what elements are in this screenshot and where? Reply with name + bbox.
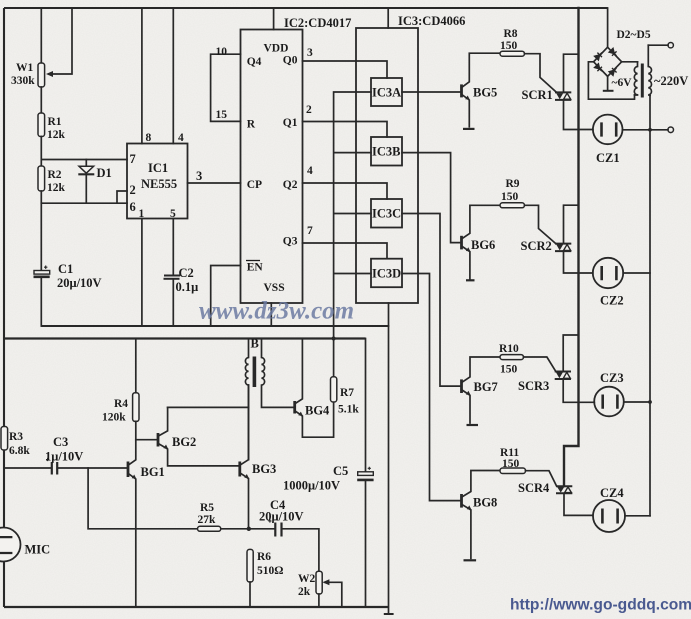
svg-text:W1: W1 xyxy=(16,62,34,74)
wire R2 bottom to IC1 pins 2,6 xyxy=(41,191,127,203)
wire CZ1 to mains xyxy=(623,129,669,131)
svg-text:C1: C1 xyxy=(58,262,73,276)
svg-text:BG1: BG1 xyxy=(141,465,165,479)
wire left border xyxy=(3,8,5,607)
op-amp timer IC1 NE555 xyxy=(127,144,188,219)
transistor BG6 xyxy=(460,236,463,250)
resistor R5 27k xyxy=(198,526,221,531)
svg-text:5.1k: 5.1k xyxy=(338,404,359,416)
svg-text:330k: 330k xyxy=(11,75,35,87)
svg-text:4: 4 xyxy=(178,132,184,144)
svg-text:8: 8 xyxy=(146,132,152,144)
wire R1-R2 junction to IC1 pin7 xyxy=(41,137,127,167)
socket CZ1 xyxy=(593,115,623,145)
wire IC1 pin3 to IC2 CP xyxy=(188,182,241,184)
svg-text:http://www.go-gddq.com: http://www.go-gddq.com xyxy=(510,597,691,614)
wire W1 branch from top rail xyxy=(40,8,42,63)
svg-text:SCR4: SCR4 xyxy=(518,481,550,495)
svg-text:C5: C5 xyxy=(333,464,348,478)
wire Q2 pin4 to IC3C xyxy=(303,183,388,199)
wire W1 to R1 xyxy=(40,87,42,113)
wire SCR2 cathode to CZ2 xyxy=(564,251,593,273)
svg-text:120k: 120k xyxy=(102,412,126,424)
svg-text:20μ/10V: 20μ/10V xyxy=(259,510,304,524)
capacitor C2 0.1u xyxy=(164,275,180,277)
wire SCR4 cathode to CZ4 xyxy=(564,493,593,515)
transformer B core xyxy=(253,357,257,388)
terminal 220V line2 xyxy=(668,127,674,133)
wire BG2 collector to driver transformer node xyxy=(168,406,249,408)
wire pin10-pin15 feedback bracket xyxy=(211,54,241,121)
svg-text:BG8: BG8 xyxy=(473,496,497,510)
wire DC+ bus xyxy=(564,8,579,486)
wire IC3D output to BG8 base xyxy=(402,274,462,501)
capacitor C1 20u/10V xyxy=(40,203,42,326)
svg-text:150: 150 xyxy=(501,191,519,203)
ground stub under bridge xyxy=(607,76,609,90)
svg-text:3: 3 xyxy=(307,47,313,59)
thyristor SCR3 xyxy=(555,371,571,373)
svg-text:~6V: ~6V xyxy=(612,77,633,89)
thyristor SCR4 xyxy=(556,485,572,487)
svg-text:SCR2: SCR2 xyxy=(521,239,552,253)
wire R11 to SCR4 gate xyxy=(526,471,557,486)
svg-text:R: R xyxy=(247,119,256,131)
svg-text:6.8k: 6.8k xyxy=(9,445,30,457)
wire CZ2 to mains bus xyxy=(623,272,650,274)
wire IC3B output to BG6 base xyxy=(402,153,462,243)
wire IC2 VSS to ground xyxy=(270,303,272,326)
analog switch IC3D xyxy=(371,259,402,288)
wire R5 to emitter node xyxy=(221,528,275,530)
wire IC2 VDD to top rail xyxy=(273,8,275,30)
svg-text:CZ4: CZ4 xyxy=(600,486,624,500)
resistor R10 150 xyxy=(500,355,524,360)
svg-text:B: B xyxy=(251,337,259,351)
wire IC3A output to BG5 base xyxy=(402,91,462,93)
wire IC3 VSS to ground rail xyxy=(388,303,390,326)
svg-text:R3: R3 xyxy=(9,431,23,443)
resistor R7 5.1k xyxy=(331,377,337,402)
capacitor C4 20u/10V xyxy=(275,523,281,537)
wire primary to terminals xyxy=(648,44,668,46)
svg-text:CP: CP xyxy=(247,179,262,191)
wire audio input bus to switches xyxy=(334,92,371,377)
potentiometer W2 2k xyxy=(316,571,322,594)
analog switch IC3B xyxy=(371,137,402,166)
wire IC1 pin1 to ground rail xyxy=(141,219,143,327)
wire top supply rail xyxy=(4,7,608,9)
transformer B primary winding xyxy=(245,339,248,460)
svg-text:10: 10 xyxy=(216,46,228,58)
wire R4 top to V+ rail xyxy=(135,339,137,393)
svg-text:1μ/10V: 1μ/10V xyxy=(45,450,83,464)
transformer core xyxy=(641,64,644,98)
svg-text:R4: R4 xyxy=(114,398,128,410)
svg-text:BG2: BG2 xyxy=(172,435,196,449)
svg-text:7: 7 xyxy=(307,225,313,237)
svg-text:27k: 27k xyxy=(198,514,217,526)
wire bottom ground rail xyxy=(4,606,389,608)
svg-text:BG3: BG3 xyxy=(252,462,276,476)
diode D1 xyxy=(85,160,87,204)
svg-text:R7: R7 xyxy=(340,387,354,399)
wire IC3C output to BG7 base xyxy=(402,214,462,387)
svg-text:BG6: BG6 xyxy=(471,238,495,252)
svg-text:IC3B: IC3B xyxy=(372,145,400,159)
svg-text:R6: R6 xyxy=(257,551,271,563)
svg-text:W2: W2 xyxy=(298,573,316,585)
wire bridge AC left wrap to secondary xyxy=(588,62,634,99)
svg-text:NE555: NE555 xyxy=(141,177,177,191)
svg-text:Q1: Q1 xyxy=(283,117,298,129)
transformer 220V primary coil xyxy=(648,45,651,95)
socket CZ3 xyxy=(594,387,624,417)
node mains bus junctions xyxy=(648,128,652,132)
svg-text:IC3D: IC3D xyxy=(372,267,401,281)
wire IC1 pin8 to top rail xyxy=(141,8,143,144)
svg-text:D1: D1 xyxy=(97,166,112,180)
wire mains bus right xyxy=(649,95,651,516)
wire C4 to W2 xyxy=(282,529,319,571)
wire R10 to SCR3 gate xyxy=(524,357,556,371)
svg-text:1000μ/10V: 1000μ/10V xyxy=(283,479,340,493)
wire SCR3 cathode to CZ3 xyxy=(563,379,594,402)
svg-text:VSS: VSS xyxy=(264,282,285,294)
wire R4 bottom to BG1 collector and BG2 base xyxy=(136,421,158,439)
svg-text:Q4: Q4 xyxy=(247,56,262,68)
svg-text:R8: R8 xyxy=(504,28,518,40)
transistor BG2 xyxy=(157,433,160,447)
svg-text:12k: 12k xyxy=(47,129,66,141)
svg-text:CZ2: CZ2 xyxy=(600,294,624,308)
thyristor SCR2 xyxy=(555,243,571,245)
transistor BG4 xyxy=(293,401,296,414)
wire CZ4 to mains bus xyxy=(625,515,650,517)
svg-text:CZ1: CZ1 xyxy=(596,151,620,165)
transistor BG1 xyxy=(127,462,130,478)
transformer 6V secondary coil xyxy=(634,62,637,95)
wire CZ3 to mains bus xyxy=(624,401,650,403)
resistor R2 12k xyxy=(38,166,45,191)
wire V+ rail of amplifier section xyxy=(4,337,366,339)
wire IC1 pin5 down through C2 xyxy=(172,219,174,327)
svg-text:VDD: VDD xyxy=(264,43,289,55)
transistor BG7 xyxy=(460,379,463,393)
svg-text:R2: R2 xyxy=(48,169,62,181)
wire ground link between sections xyxy=(388,326,390,614)
transistor BG5 xyxy=(460,84,463,97)
svg-text:0.1μ: 0.1μ xyxy=(176,280,199,294)
svg-text:BG7: BG7 xyxy=(474,380,498,394)
svg-text:Q2: Q2 xyxy=(283,179,298,191)
wire IC3 VDD to top rail xyxy=(387,8,389,28)
svg-text:BG4: BG4 xyxy=(305,404,330,418)
wire SCR1 anode to DC bus xyxy=(564,54,579,92)
svg-text:Q3: Q3 xyxy=(283,236,298,248)
resistor R9 150 xyxy=(500,203,525,208)
svg-text:2: 2 xyxy=(306,104,312,116)
svg-text:2: 2 xyxy=(130,183,136,197)
svg-text:www.dz3w.com: www.dz3w.com xyxy=(199,298,354,325)
svg-text:SCR3: SCR3 xyxy=(518,379,549,393)
svg-text:IC2:CD4017: IC2:CD4017 xyxy=(284,16,351,30)
svg-text:C2: C2 xyxy=(179,266,194,280)
terminal 220V line1 xyxy=(668,43,673,48)
svg-text:12k: 12k xyxy=(47,182,66,194)
svg-text:R1: R1 xyxy=(48,116,62,128)
svg-text:150: 150 xyxy=(500,364,518,376)
resistor R6 510ohm xyxy=(247,549,253,582)
svg-text:EN: EN xyxy=(247,262,264,274)
analog switch IC3C xyxy=(371,199,402,228)
svg-text:15: 15 xyxy=(216,109,228,121)
capacitor C3 1u/10V xyxy=(4,467,128,469)
svg-text:7: 7 xyxy=(130,152,136,166)
svg-text:IC1: IC1 xyxy=(148,161,168,175)
transistor BG8 xyxy=(460,494,463,508)
svg-text:20μ/10V: 20μ/10V xyxy=(57,276,102,290)
wire R9 to SCR2 gate xyxy=(525,205,556,243)
svg-text:2k: 2k xyxy=(298,586,311,598)
svg-text:6: 6 xyxy=(130,200,136,214)
svg-text:3: 3 xyxy=(196,169,202,183)
svg-text:C3: C3 xyxy=(53,435,68,449)
wire SCR1 cathode to CZ1 xyxy=(564,100,593,130)
node audio bus joins amplifier rail xyxy=(332,337,336,341)
svg-text:510Ω: 510Ω xyxy=(257,565,283,577)
capacitor C5 1000u/10V xyxy=(365,339,367,608)
svg-text:SCR1: SCR1 xyxy=(522,88,553,102)
wire W2 bottom to ground xyxy=(318,594,320,607)
svg-text:150: 150 xyxy=(502,458,520,470)
svg-text:CZ3: CZ3 xyxy=(600,371,624,385)
svg-text:BG5: BG5 xyxy=(473,86,497,100)
wire SCR2 anode to DC bus xyxy=(564,205,579,243)
svg-text:4: 4 xyxy=(307,165,313,177)
socket CZ2 xyxy=(593,258,623,288)
node BG3 emitter junction xyxy=(247,527,251,531)
svg-text:150: 150 xyxy=(500,40,518,52)
svg-text:R10: R10 xyxy=(499,343,519,355)
wire R8 to SCR1 gate xyxy=(525,54,557,92)
potentiometer W1 330k xyxy=(38,63,45,87)
resistor R11 150 xyxy=(500,468,526,474)
resistor R8 150 xyxy=(500,51,525,56)
microphone MIC xyxy=(0,528,21,562)
transformer B secondary winding xyxy=(262,339,295,408)
bridge rectifier D2~D5 xyxy=(607,8,609,47)
wire bridge AC right to secondary top xyxy=(622,61,638,63)
resistor R1 12k xyxy=(38,113,45,137)
svg-text:R5: R5 xyxy=(200,502,214,514)
resistor R4 120k xyxy=(133,393,139,422)
counter IC2 CD4017 xyxy=(241,30,303,304)
svg-text:IC3:CD4066: IC3:CD4066 xyxy=(398,14,465,28)
svg-text:~220V: ~220V xyxy=(654,74,688,88)
wire Q1 pin2 to IC3B xyxy=(303,122,388,138)
svg-text:Q0: Q0 xyxy=(283,55,298,67)
svg-text:IC3C: IC3C xyxy=(372,207,401,221)
svg-text:R9: R9 xyxy=(506,178,520,190)
resistor R3 6.8k xyxy=(1,427,8,451)
analog switch IC3A xyxy=(371,78,402,106)
wire Q0 pin3 to IC3A xyxy=(303,61,388,78)
socket CZ4 xyxy=(593,500,625,532)
wire IC2 EN to ground xyxy=(211,266,241,327)
thyristor SCR1 xyxy=(555,91,571,93)
transistor BG3 xyxy=(238,462,241,477)
svg-text:D2~D5: D2~D5 xyxy=(617,29,651,41)
switch array IC3 CD4066 outline xyxy=(356,28,418,303)
wire IC1 pin4 to top rail xyxy=(172,8,174,144)
svg-text:MIC: MIC xyxy=(25,543,51,557)
wire SCR3 anode to DC bus xyxy=(563,335,578,372)
wire base bias tap to R5 xyxy=(88,468,197,529)
wire ground rail of oscillator section xyxy=(41,325,388,327)
wire Q3 pin7 to IC3D xyxy=(303,243,388,259)
svg-text:IC3A: IC3A xyxy=(372,86,401,100)
